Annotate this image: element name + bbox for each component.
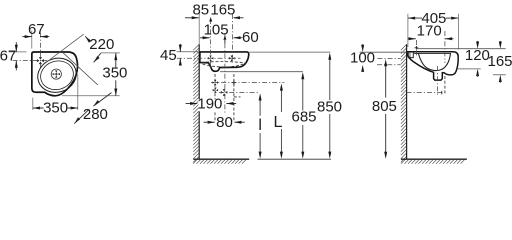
dim 45: top extension line: [177, 51, 200, 53]
dim 685: dimension line: [301, 72, 304, 159]
dim 220: lower arrow with leader: [94, 53, 101, 62]
dim 100: dimension line: [361, 44, 364, 72]
svg-text:350: 350: [102, 64, 127, 81]
dim 45: dimension line with outside arrows: [179, 44, 182, 66]
side view: bracket bolt centerline: [415, 40, 417, 57]
side view: front reference dashed line: [444, 31, 446, 63]
dim 67 top: label: [28, 21, 45, 38]
dim 350v: dimension line with inside arrows: [114, 53, 117, 96]
front view: floor hatching: [193, 159, 247, 164]
dim 85 label: [192, 2, 209, 19]
dim 165: lower line and arrow: [493, 75, 506, 83]
side view: rim top extension line: [360, 51, 407, 53]
front view: supply level line (horizontal): [211, 82, 284, 84]
svg-text:80: 80: [216, 114, 233, 131]
side view: 100 level line: [377, 64, 401, 66]
side view: 805 level line: [377, 57, 400, 59]
dim 45: label: [160, 47, 177, 64]
front view: drain level line (horizontal): [219, 92, 259, 94]
svg-text:l: l: [258, 117, 262, 134]
svg-text:60: 60: [242, 29, 259, 46]
plan view: corner basin outline: [32, 52, 78, 96]
dim l: dimension line: [259, 93, 262, 159]
dim 350h: right extension line: [77, 74, 79, 110]
dim 120/165: top reference line: [417, 48, 506, 50]
plan view: main 45-degree diagonal through bowl: [62, 52, 97, 85]
dim 67 top: extension line from left edge: [31, 31, 33, 49]
side view: basin profile outline: [407, 52, 458, 80]
dim 350h: dimension line with inside arrows: [33, 107, 78, 110]
svg-text:350: 350: [43, 100, 68, 117]
svg-text:165: 165: [210, 2, 235, 19]
dim 100: label: [350, 49, 375, 66]
svg-text:67: 67: [28, 21, 45, 38]
dim 350v: bottom extension line: [62, 95, 120, 97]
dim 165 label: [210, 2, 235, 19]
dim 850: label: [317, 98, 342, 115]
dim 405: label: [421, 10, 446, 27]
dim 120: top arrow: [476, 41, 479, 49]
front view: left supply symbol upper: [213, 80, 218, 85]
svg-text:170: 170: [417, 22, 442, 39]
dim 85/165: dimension line: [185, 16, 244, 22]
front view: main vertical centerline: [224, 33, 226, 115]
svg-text:685: 685: [291, 109, 316, 126]
svg-text:120: 120: [465, 47, 490, 64]
side view: lower dashed line: [444, 76, 446, 94]
dim 850: level extension line: [249, 51, 330, 53]
dim 220: upper arrow: [85, 36, 91, 42]
front view: right fixing hole symbol: [229, 56, 235, 62]
plan view: bowl outer rim (ellipse): [33, 53, 80, 97]
dim 105: label: [204, 22, 229, 39]
dim 350v: label: [102, 64, 127, 81]
front view: hidden bowl rim (dashed): [201, 62, 246, 64]
dim 67 left: label: [0, 47, 16, 64]
svg-text:280: 280: [83, 106, 108, 123]
dim 67 top: dimension line with outside arrows: [22, 35, 49, 38]
side view: drain level line: [407, 91, 445, 95]
dim 85/165: extension line above basin edge: [198, 14, 200, 45]
svg-text:165: 165: [487, 53, 512, 70]
dim 685: level extension line: [220, 71, 303, 73]
dim 405: left extension line: [407, 14, 409, 47]
front view: left supply line (dashed): [214, 74, 216, 121]
front view: right supply symbol (cross): [232, 80, 237, 85]
dim L: dimension line: [280, 83, 283, 158]
dim 67 left: extension line from top edge: [9, 51, 27, 53]
dim 190: dimension line: [186, 102, 237, 105]
front view: hidden bowl bottom (dashed): [203, 64, 244, 67]
front view: left fixing hole symbol: [208, 56, 214, 62]
svg-text:45: 45: [160, 47, 177, 64]
dim 80: dimension line: [204, 121, 245, 124]
front view: right hole vertical centerline: [232, 14, 234, 63]
side view: floor hatching: [401, 159, 465, 164]
plan view: vertical centerline through tap hole: [39, 33, 41, 68]
svg-text:805: 805: [372, 98, 397, 115]
front view: basin outline: [200, 52, 249, 71]
dim 280: lower arrow with leader: [74, 109, 89, 124]
dim 350v: top extension line (leader from 220 arrow): [101, 52, 120, 54]
dim 120: lower line and arrow: [458, 69, 481, 77]
front view: wall hatching: [193, 44, 199, 162]
side view: bracket bolt tick: [415, 46, 419, 50]
dim 67 left: dimension line with outside arrows: [15, 42, 18, 70]
dim 405: dimension line with inside arrows: [408, 17, 459, 20]
front view: right supply line (dashed): [234, 74, 241, 122]
dim 805: label: [372, 98, 397, 115]
dim 170: dimension line: [408, 37, 454, 40]
dim 190: label: [197, 95, 222, 112]
svg-text:220: 220: [89, 36, 114, 53]
side view: floor line: [401, 158, 467, 160]
svg-text:105: 105: [204, 22, 229, 39]
dim 280: upper arrow with leader: [93, 93, 111, 107]
side view: drain vertical centerline: [437, 66, 439, 96]
dim 80: label: [216, 114, 233, 131]
side view: wall surface line: [406, 44, 408, 159]
dim 105: dimension line: [200, 35, 226, 43]
front view: wall surface line: [198, 44, 200, 159]
dim 405: right extension line: [457, 14, 459, 50]
dim l: label: [258, 117, 262, 134]
svg-text:L: L: [273, 114, 282, 131]
svg-text:190: 190: [197, 95, 222, 112]
svg-text:67: 67: [0, 47, 16, 64]
dim 165: label: [487, 53, 512, 70]
front view: floor line under basin: [193, 158, 249, 160]
plan view: drain symbol: [51, 69, 61, 79]
front view: fixing holes centerline (horizontal): [177, 57, 241, 59]
svg-text:85: 85: [192, 2, 209, 19]
front view: left hole vertical centerline: [210, 19, 212, 68]
dim 350h: label: [43, 100, 68, 117]
side view: bowl interior (section): [414, 53, 451, 70]
dim 805: dimension line: [384, 59, 387, 159]
front view: floor reference line (right): [258, 158, 332, 160]
svg-text:100: 100: [350, 49, 375, 66]
plan view: bowl inner edge (ellipse): [37, 57, 77, 94]
plan view: tap hole symbol: [37, 57, 44, 64]
dim 165: top arrow: [499, 41, 502, 49]
dim L: label: [273, 114, 282, 131]
dim 350h: left extension line: [32, 98, 34, 110]
dim 170: label: [417, 22, 442, 39]
dim 685: label: [291, 109, 316, 126]
side view: wall hatching: [401, 44, 407, 162]
plan view: horizontal centerline through tap hole: [13, 60, 47, 62]
dim 60: arrow and label: [233, 29, 258, 46]
front view: left supply symbol lower: [213, 88, 218, 93]
svg-text:850: 850: [317, 98, 342, 115]
dim 220: diagonal extension line: [44, 34, 84, 64]
dim 280: label: [83, 106, 108, 123]
dim 120: label: [465, 47, 490, 64]
side view: wall bracket: [408, 52, 413, 58]
front view: drain outlet symbol (diamond): [221, 89, 228, 96]
dim 850: dimension line: [328, 53, 331, 159]
dim 220: label: [89, 36, 114, 53]
